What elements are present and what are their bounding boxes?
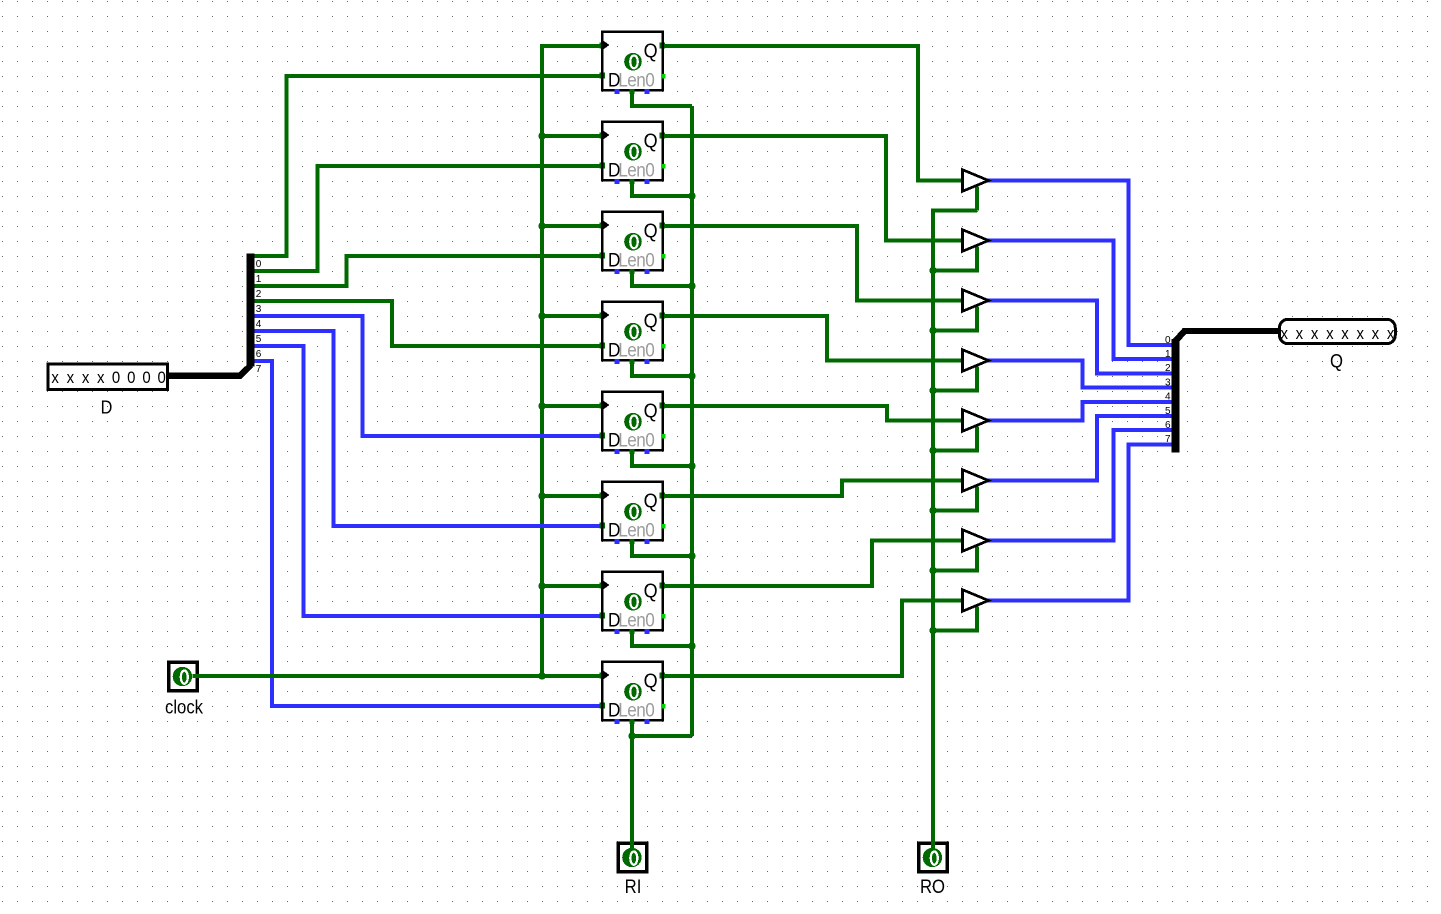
svg-text:Len0: Len0 — [618, 158, 654, 180]
svg-text:x: x — [1280, 325, 1287, 343]
svg-text:0: 0 — [112, 369, 120, 387]
svg-text:3: 3 — [256, 304, 262, 315]
svg-text:Len0: Len0 — [618, 608, 654, 630]
svg-text:x: x — [1372, 325, 1379, 343]
svg-text:Len0: Len0 — [618, 698, 654, 720]
svg-text:Q: Q — [644, 40, 658, 62]
svg-text:7: 7 — [256, 364, 262, 375]
svg-text:D: D — [101, 397, 113, 418]
svg-text:x: x — [67, 369, 74, 387]
svg-text:Q: Q — [644, 400, 658, 422]
svg-text:6: 6 — [1165, 420, 1171, 431]
svg-text:Q: Q — [644, 130, 658, 152]
svg-text:x: x — [1296, 325, 1303, 343]
svg-text:4: 4 — [256, 319, 262, 330]
svg-text:x: x — [1311, 325, 1318, 343]
svg-text:x: x — [51, 369, 58, 387]
svg-text:6: 6 — [256, 349, 262, 360]
svg-text:4: 4 — [1165, 392, 1171, 403]
svg-text:0: 0 — [256, 259, 262, 270]
svg-text:Q: Q — [1330, 351, 1343, 372]
svg-text:7: 7 — [1165, 434, 1171, 445]
svg-text:2: 2 — [256, 289, 262, 300]
svg-text:x: x — [97, 369, 104, 387]
svg-text:x: x — [1387, 325, 1394, 343]
svg-text:RI: RI — [625, 876, 642, 897]
svg-text:Len0: Len0 — [618, 518, 654, 540]
svg-text:Q: Q — [644, 220, 658, 242]
svg-text:x: x — [1356, 325, 1363, 343]
svg-text:0: 0 — [1165, 335, 1171, 346]
svg-text:Len0: Len0 — [618, 428, 654, 450]
svg-text:Len0: Len0 — [618, 338, 654, 360]
svg-text:Len0: Len0 — [618, 248, 654, 270]
svg-text:1: 1 — [256, 274, 262, 285]
svg-text:5: 5 — [1165, 406, 1171, 417]
svg-text:clock: clock — [165, 697, 203, 718]
svg-text:0: 0 — [142, 369, 150, 387]
svg-text:Q: Q — [644, 670, 658, 692]
svg-text:Q: Q — [644, 580, 658, 602]
svg-text:Q: Q — [644, 490, 658, 512]
svg-text:x: x — [1341, 325, 1348, 343]
svg-text:2: 2 — [1165, 363, 1171, 374]
svg-text:Len0: Len0 — [618, 68, 654, 90]
svg-text:Q: Q — [644, 310, 658, 332]
svg-text:x: x — [82, 369, 89, 387]
svg-text:3: 3 — [1165, 377, 1171, 388]
svg-text:1: 1 — [1165, 349, 1171, 360]
svg-text:0: 0 — [158, 369, 166, 387]
svg-text:0: 0 — [127, 369, 135, 387]
svg-text:5: 5 — [256, 334, 262, 345]
svg-text:RO: RO — [920, 876, 945, 897]
svg-text:x: x — [1326, 325, 1333, 343]
